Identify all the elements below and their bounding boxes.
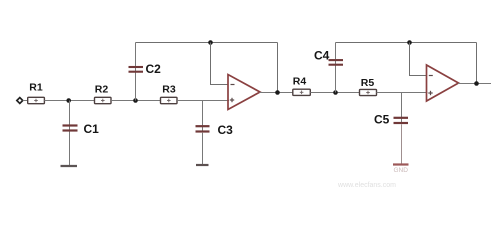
wire R2 to R3: [111, 100, 161, 102]
wire feedback top (stage 2): [336, 42, 477, 44]
wire feedback top (stage 1): [136, 42, 278, 44]
node: C1 tap junction: [66, 98, 71, 103]
wire C4 upper: [335, 43, 337, 60]
wire R5 to op-amp U2: [377, 92, 428, 94]
resistor R2: [95, 97, 112, 103]
svg-text:C2: C2: [146, 62, 162, 76]
wire C5 lower: [401, 124, 403, 163]
svg-text:C3: C3: [218, 123, 234, 137]
wire C2 upper: [135, 43, 137, 67]
ground (C1): [61, 165, 78, 167]
wire U2 output to edge: [458, 83, 491, 85]
svg-text:R2: R2: [95, 83, 109, 95]
capacitor C4: [329, 60, 344, 65]
ground GND (C5): [393, 163, 409, 165]
wire C1 branch upper: [69, 101, 71, 133]
wire R4 to R5: [310, 92, 359, 94]
wire R1 to R2: [44, 100, 94, 102]
wire feedback to output node U1: [277, 43, 279, 93]
wire U1 output to R4: [260, 92, 293, 94]
wire input to R1: [23, 100, 28, 102]
svg-text:www.elecfans.com: www.elecfans.com: [337, 182, 396, 189]
capacitor C5: [394, 118, 409, 123]
node A: C2 tap junction: [133, 98, 138, 103]
svg-text:R5: R5: [361, 77, 375, 89]
wire to inverting input U2: [410, 43, 427, 76]
wire C5 branch upper: [401, 93, 403, 125]
svg-text:GND: GND: [393, 167, 408, 174]
wire R3 to op-amp U1: [177, 100, 229, 102]
resistor R3: [161, 97, 178, 103]
node: feedback junction stage2: [407, 40, 412, 45]
capacitor C2: [129, 67, 144, 72]
wire C4 branch lower: [335, 60, 337, 93]
resistor R5: [360, 89, 377, 95]
op-amp U1: [228, 75, 260, 110]
op-amp U2: [427, 65, 459, 101]
svg-text:R3: R3: [162, 83, 176, 95]
wire C2 branch lower: [135, 66, 137, 101]
wire C3 lower: [202, 133, 204, 165]
svg-text:C4: C4: [314, 49, 330, 63]
svg-text:R1: R1: [29, 82, 43, 94]
input terminal: [17, 98, 23, 104]
svg-text:R4: R4: [293, 75, 307, 87]
wire to inverting input U1: [211, 43, 229, 85]
node: U2 output junction: [474, 81, 479, 86]
node B2: C4 tap junction: [333, 90, 338, 95]
svg-text:C1: C1: [84, 122, 100, 136]
wire C1 lower: [69, 132, 71, 165]
wire C3 branch upper: [202, 101, 204, 133]
capacitor C1: [63, 126, 78, 131]
svg-text:C5: C5: [374, 113, 390, 127]
capacitor C3: [196, 126, 210, 131]
wire feedback to output node U2: [476, 43, 478, 84]
ground (C3): [196, 164, 209, 166]
node: feedback junction stage1: [208, 40, 213, 45]
resistor R1: [28, 97, 45, 103]
resistor R4: [293, 89, 311, 95]
node: U1 output junction: [275, 90, 280, 95]
